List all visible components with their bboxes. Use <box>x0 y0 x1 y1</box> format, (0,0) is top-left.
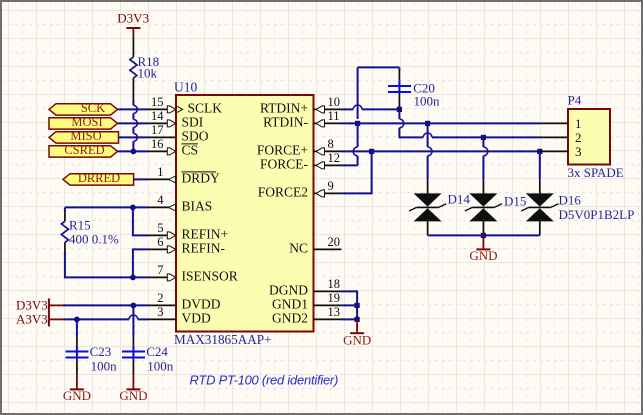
pin 3 VDD <box>148 305 211 326</box>
svg-text:A3V3: A3V3 <box>16 311 48 326</box>
wire CSRED to pin 16 <box>118 150 149 152</box>
svg-text:7: 7 <box>157 263 163 277</box>
svg-text:CSRED: CSRED <box>64 143 104 157</box>
svg-text:14: 14 <box>151 109 164 123</box>
svg-text:GND: GND <box>343 333 371 348</box>
svg-text:5: 5 <box>157 221 163 235</box>
svg-text:D3V3: D3V3 <box>16 297 48 312</box>
wire DGND/GND1/GND2 to ground <box>342 291 358 319</box>
svg-text:16: 16 <box>151 137 164 151</box>
pin 14 SDI <box>148 109 204 129</box>
TVS diode D14 <box>409 179 470 235</box>
wire BIAS pin 4 to R15 top <box>65 207 148 212</box>
svg-text:6: 6 <box>157 235 163 249</box>
wire MISO to pin 17 <box>119 136 149 138</box>
pin 1 DRDY (active low, overline) <box>148 165 220 186</box>
svg-text:100n: 100n <box>414 93 441 108</box>
svg-text:D16: D16 <box>559 193 582 208</box>
wire RTDIN- pin 11 to P4 pin 1 <box>342 122 541 124</box>
junction GND1 <box>355 303 360 308</box>
svg-text:GND1: GND1 <box>272 296 308 311</box>
svg-text:1: 1 <box>575 116 582 131</box>
wire R15 bottom to ISENSOR pin 7 <box>65 252 148 277</box>
svg-text:19: 19 <box>328 291 341 305</box>
pin 6 REFIN- <box>148 235 226 256</box>
power port A3V3 left (bar style) <box>16 311 63 326</box>
wire DRRED to pin 1 <box>134 178 148 180</box>
svg-text:GND: GND <box>63 388 91 403</box>
pin 11 RTDIN- <box>263 109 341 129</box>
port MISO <box>49 129 119 143</box>
svg-text:DVDD: DVDD <box>182 296 221 311</box>
svg-text:RTD PT-100 (red identifier): RTD PT-100 (red identifier) <box>190 373 339 388</box>
ground GND under C24 <box>119 375 147 403</box>
junction A3V3 / C23 branch <box>74 317 80 323</box>
pin 19 GND1 <box>272 291 342 312</box>
junction ISENSOR / REFIN- branch <box>130 275 136 281</box>
wire FORCE- jog up to RTDIN- net (hops over FORCE+ row) <box>342 123 358 165</box>
junction C20 / RTDIN+ <box>397 107 402 112</box>
svg-text:100n: 100n <box>91 359 118 374</box>
pin 5 REFIN+ <box>148 221 228 242</box>
svg-text:FORCE+: FORCE+ <box>257 142 308 157</box>
wire A3V3 to VDD pin 3 (hops over C24 branch) <box>63 315 148 319</box>
svg-text:GND2: GND2 <box>272 310 308 325</box>
svg-text:3: 3 <box>157 305 163 319</box>
svg-text:RTDIN-: RTDIN- <box>263 114 308 129</box>
svg-text:FORCE-: FORCE- <box>260 156 309 171</box>
svg-text:FORCE2: FORCE2 <box>258 184 308 199</box>
wire junction down to REFIN+ pin 5 <box>133 207 148 235</box>
svg-text:3: 3 <box>575 144 582 159</box>
svg-text:SDI: SDI <box>182 114 204 129</box>
svg-text:SCLK: SCLK <box>188 100 223 115</box>
P4 pin 3 <box>540 144 582 159</box>
port MOSI <box>49 115 118 129</box>
svg-text:SDO: SDO <box>182 128 209 143</box>
svg-text:BIAS: BIAS <box>182 198 213 213</box>
wire D15 leg down from RTDIN+ row (hops over FORCE+ row) <box>483 137 487 179</box>
power port D3V3 top (bar style) <box>117 11 149 37</box>
wire junction up to REFIN- pin 6 <box>133 249 148 277</box>
svg-text:1: 1 <box>157 165 163 179</box>
svg-text:SCK: SCK <box>81 101 105 115</box>
svg-text:RTDIN+: RTDIN+ <box>260 100 308 115</box>
svg-text:DGND: DGND <box>269 282 308 297</box>
svg-text:VDD: VDD <box>182 310 211 325</box>
junction D15 / RTDIN+ row <box>481 135 486 140</box>
svg-text:ISENSOR: ISENSOR <box>182 268 238 283</box>
svg-text:D15: D15 <box>504 194 526 209</box>
junction D3V3 / C24 branch <box>131 303 137 309</box>
junction D14 / RTDIN- row <box>425 121 430 126</box>
svg-text:400 0.1%: 400 0.1% <box>69 231 119 246</box>
pin 16 CS (active low, overline) <box>148 137 198 158</box>
port DRRED <box>63 171 134 185</box>
capacitor C20 100n <box>388 70 440 108</box>
P4 pin 1 <box>540 116 582 131</box>
svg-text:DRRED: DRRED <box>78 171 120 185</box>
resistor R15 400 0.1% <box>61 212 119 252</box>
pin 20 NC <box>289 235 341 256</box>
svg-text:10: 10 <box>328 95 341 109</box>
svg-text:NC: NC <box>289 240 308 255</box>
wire D16 leg down from FORCE row <box>539 151 541 179</box>
svg-text:17: 17 <box>151 123 164 137</box>
IC U10 body MAX31865AAP+ <box>176 95 314 332</box>
wire D14 leg down from RTDIN- row (hops over FORCE+ row) <box>428 123 432 179</box>
svg-text:CS: CS <box>182 142 199 157</box>
svg-text:REFIN+: REFIN+ <box>182 226 229 241</box>
P4 pin 2 <box>540 130 582 145</box>
svg-text:15: 15 <box>151 95 164 109</box>
pin 18 DGND <box>269 277 342 298</box>
svg-text:GND: GND <box>469 248 497 263</box>
port SCK <box>49 101 118 115</box>
junction C20 / FORCE- / RTDIN- <box>355 121 360 126</box>
svg-text:2: 2 <box>575 130 582 145</box>
svg-text:11: 11 <box>328 109 340 123</box>
svg-text:D14: D14 <box>448 192 471 207</box>
wire FORCE2 pin 9 jog up to FORCE+ row <box>342 151 372 193</box>
junction D15 / ground wire <box>481 233 486 238</box>
wire SCK to pin 15 <box>118 108 149 110</box>
junction on CSRED wire at R18 pull-up <box>131 149 137 155</box>
svg-text:12: 12 <box>328 151 341 165</box>
svg-text:100n: 100n <box>147 359 174 374</box>
wire MOSI to pin 14 <box>118 122 149 124</box>
pin 15 SCLK <box>148 95 222 116</box>
svg-text:MOSI: MOSI <box>71 115 102 129</box>
ground GND under D15 <box>469 235 497 263</box>
svg-text:9: 9 <box>328 179 334 193</box>
connector P4 3x SPADE <box>568 93 624 180</box>
svg-text:C23: C23 <box>90 344 112 359</box>
wire C20 top loop <box>358 67 400 119</box>
wire D3V3 to DVDD pin 2 <box>63 304 148 306</box>
pin 2 DVDD <box>148 291 221 312</box>
wire C24 branch vertical <box>132 305 134 336</box>
pin 9 FORCE2 <box>258 179 342 200</box>
svg-text:10k: 10k <box>138 65 158 80</box>
power port D3V3 left (bar style) <box>16 297 63 312</box>
svg-text:3x SPADE: 3x SPADE <box>568 165 624 180</box>
ground GND under C23 <box>63 375 91 403</box>
svg-text:P4: P4 <box>568 93 582 108</box>
capacitor C24 100n <box>122 336 174 375</box>
svg-text:C24: C24 <box>146 344 168 359</box>
pin 8 FORCE+ <box>257 137 342 158</box>
junction D16 / FORCE row <box>537 149 542 154</box>
port CSRED <box>49 143 118 157</box>
wire R18 bottom down to CSRED net (hops over SCK, MOSI, MISO wires) <box>133 100 137 151</box>
svg-text:D3V3: D3V3 <box>117 11 149 26</box>
svg-text:8: 8 <box>328 137 334 151</box>
ground GND at IC <box>343 319 371 347</box>
TVS diode D16 D5V0P1B2LP <box>521 179 634 235</box>
svg-text:MAX31865AAP+: MAX31865AAP+ <box>174 332 272 347</box>
svg-text:13: 13 <box>328 305 341 319</box>
svg-text:REFIN-: REFIN- <box>182 240 226 255</box>
wire RTDIN+ row to P4 pin 2 (hops over D14 leg) <box>423 133 540 137</box>
svg-text:R15: R15 <box>69 218 91 233</box>
svg-text:MISO: MISO <box>70 129 101 143</box>
svg-text:GND: GND <box>119 388 147 403</box>
svg-text:D5V0P1B2LP: D5V0P1B2LP <box>559 207 635 222</box>
capacitor C23 100n <box>66 336 118 375</box>
junction GND2 <box>355 317 360 322</box>
TVS diode D15 <box>465 179 527 235</box>
svg-text:2: 2 <box>157 291 163 305</box>
pin 12 FORCE- <box>260 151 342 172</box>
wire C20 bottom to RTDIN+ net <box>398 106 400 109</box>
pin 7 ISENSOR <box>148 263 238 284</box>
wire FORCE+ pin 8 to P4 pin 3 <box>342 150 541 152</box>
svg-text:18: 18 <box>328 277 341 291</box>
svg-text:20: 20 <box>328 235 341 249</box>
svg-text:DRDY: DRDY <box>182 170 221 185</box>
pin 10 RTDIN+ <box>260 95 342 116</box>
wire diode commons to ground <box>428 234 540 236</box>
pin 17 SDO <box>148 123 209 144</box>
svg-text:4: 4 <box>157 193 164 207</box>
resistor R18 10k <box>130 36 159 100</box>
svg-text:U10: U10 <box>174 80 197 95</box>
junction BIAS / REFIN+ branch <box>130 205 136 211</box>
pin 13 GND2 <box>272 305 342 326</box>
wire RTDIN+ jog down to P4 pin 2 row (hops over RTDIN- wire) <box>399 109 423 137</box>
wire RTDIN+ pin 10 to C20 (hops over C20 left leg) <box>342 105 400 109</box>
wire C23 branch vertical <box>76 319 78 336</box>
junction FORCE2 / FORCE+ row <box>369 149 374 154</box>
pin 4 BIAS <box>148 193 212 214</box>
